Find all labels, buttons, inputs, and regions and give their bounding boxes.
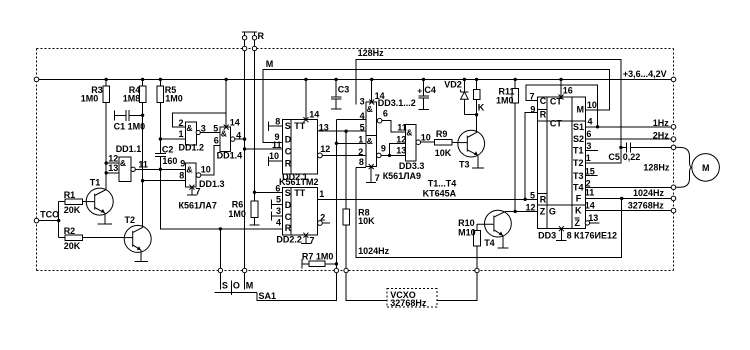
wire +V supply bus — [37, 78, 672, 80]
terminal vertical A bottom — [334, 268, 338, 272]
transistor T3 — [458, 130, 485, 169]
resistor R10 M10 — [458, 218, 480, 268]
wire SA1 S contact — [219, 229, 221, 269]
wire DD3.3 pin12 tie — [388, 144, 406, 157]
svg-text:10K: 10K — [358, 216, 375, 226]
node C3 bus junction — [334, 78, 337, 81]
svg-text:S: S — [285, 121, 291, 131]
svg-text:R10: R10 — [458, 218, 475, 228]
resistor R7 1M0 — [302, 252, 337, 269]
terminal R10 bottom — [475, 268, 479, 272]
wire DD1.2 pin1 — [160, 138, 185, 140]
node pin12 junction — [105, 161, 108, 164]
wire DD3 pin12 Z line — [506, 210, 538, 212]
svg-text:VD2: VD2 — [444, 79, 462, 89]
svg-text:2: 2 — [358, 147, 363, 157]
svg-text:3: 3 — [201, 123, 206, 133]
wire DD3 pin7 C route — [526, 85, 598, 127]
svg-text:1: 1 — [358, 135, 363, 145]
svg-text:T3: T3 — [459, 159, 470, 169]
pin DD2.1 9 wire from M — [275, 132, 280, 142]
svg-text:&: & — [120, 158, 126, 168]
svg-text:5: 5 — [276, 194, 281, 204]
svg-text:9: 9 — [381, 144, 386, 154]
resistor R2 20K — [59, 226, 125, 251]
node R terminal link — [242, 31, 265, 41]
wire VCXO output — [437, 273, 477, 301]
ground DD1.3 pin7 — [187, 185, 201, 197]
svg-text:1Hz: 1Hz — [653, 118, 670, 128]
labels DD3 internals — [540, 96, 584, 228]
svg-text:1024Hz: 1024Hz — [633, 188, 665, 198]
svg-text:+3,6...4,2V: +3,6...4,2V — [623, 69, 667, 79]
svg-text:DD3.3: DD3.3 — [399, 161, 425, 171]
svg-text:10: 10 — [421, 132, 431, 142]
terminal vertical B bottom — [344, 268, 348, 272]
svg-text:R: R — [540, 110, 547, 120]
terminal TCO — [34, 209, 59, 223]
wire M line — [263, 69, 610, 142]
svg-text:160: 160 — [162, 156, 177, 166]
flip-flop DD2.1 K561TM2 — [279, 120, 319, 188]
svg-text:12: 12 — [108, 153, 118, 163]
pin DD2.2 5 stub — [271, 194, 282, 209]
pin DD3 6 S2 2Hz — [585, 129, 676, 142]
svg-text:14: 14 — [585, 201, 595, 211]
resistor R4 1M8 — [123, 79, 146, 103]
svg-text:13: 13 — [396, 146, 406, 156]
wire vertical A DD1.4out net — [335, 119, 337, 268]
wire to DD2.1 C input — [245, 148, 283, 150]
svg-text:K: K — [478, 103, 485, 113]
node DD2.2 pin6 R6 junction — [253, 191, 256, 194]
capacitor C5 0,22 — [608, 142, 675, 162]
svg-text:1: 1 — [179, 129, 184, 139]
transistor T2 — [124, 215, 151, 261]
svg-text:8: 8 — [179, 170, 184, 180]
svg-text:T1: T1 — [573, 146, 584, 156]
pin DD3 13 Z stub — [585, 213, 599, 225]
svg-text:T2: T2 — [125, 215, 136, 225]
wire R5 down to C2 — [159, 103, 161, 154]
node resistor bus junction — [475, 78, 478, 81]
pin labels DD3.2 — [358, 135, 386, 167]
svg-text:10: 10 — [201, 165, 211, 175]
wire DD1.3 out to DD1.4 pin6 — [201, 145, 220, 175]
wire DD3 pin9 R route — [525, 113, 537, 200]
capacitor C2 160 — [155, 144, 177, 169]
svg-text:+: + — [417, 86, 422, 96]
wire DD1.1 output to DD1.3 pin9 — [135, 168, 185, 170]
oscillator VCXO box — [387, 289, 437, 308]
svg-text:128Hz: 128Hz — [358, 48, 385, 58]
wire R4 to T2 collector — [142, 103, 144, 228]
svg-text:M: M — [702, 163, 710, 173]
svg-text:M: M — [246, 281, 254, 291]
gate DD3.3 — [396, 123, 430, 172]
resistor R9 10K — [435, 129, 458, 158]
svg-text:13: 13 — [319, 122, 329, 132]
svg-text:20K: 20K — [64, 241, 81, 251]
svg-text:1: 1 — [586, 153, 591, 163]
wire R1 R2 split — [58, 202, 60, 238]
node R7 junction — [335, 262, 338, 265]
node pin16 bus junction — [559, 78, 562, 81]
svg-text:3: 3 — [586, 141, 591, 151]
svg-text:R: R — [285, 159, 292, 169]
terminals R top border — [242, 46, 256, 50]
svg-text:11: 11 — [138, 160, 148, 170]
node bus junctions — [105, 78, 308, 81]
node VD2 bus junction — [463, 78, 466, 81]
resistor R5 1M0 — [157, 79, 183, 103]
svg-text:13: 13 — [588, 213, 598, 223]
svg-text:16: 16 — [563, 85, 573, 95]
svg-text:SA1: SA1 — [259, 291, 277, 301]
svg-text:4: 4 — [276, 217, 281, 227]
wire DD1.1 pin12 — [106, 162, 119, 164]
svg-text:R9: R9 — [436, 129, 448, 139]
wire R terminal line 2 — [254, 40, 256, 192]
svg-text:2: 2 — [320, 213, 325, 223]
svg-text:10: 10 — [269, 151, 279, 161]
svg-text:&: & — [186, 164, 192, 174]
wire DD3.2 pin8 from 1024Hz feedback — [356, 166, 366, 168]
svg-text:T2: T2 — [573, 158, 584, 168]
svg-text:7: 7 — [196, 187, 201, 197]
svg-text:3: 3 — [276, 206, 281, 216]
svg-text:&: & — [367, 104, 373, 114]
svg-text:4: 4 — [588, 117, 593, 127]
ground DD2.2 pin7 — [301, 233, 315, 246]
node collector junction — [475, 113, 478, 116]
capacitor C1 1M0 — [114, 110, 146, 132]
label T1...T4 KT645A — [423, 179, 457, 199]
node C4 bus junction — [422, 78, 425, 81]
svg-text:KT645A: KT645A — [423, 188, 457, 198]
svg-text:14: 14 — [375, 91, 385, 101]
wire R3 to T1 collector — [105, 103, 107, 190]
svg-text:5: 5 — [530, 191, 535, 201]
svg-text:5: 5 — [360, 123, 365, 133]
wire DD3.2 pin1 — [336, 142, 365, 144]
svg-text:1M0: 1M0 — [228, 209, 246, 219]
svg-text:T1: T1 — [90, 178, 101, 188]
svg-text:T4: T4 — [484, 238, 495, 248]
pin DD3 gates 14 power — [369, 79, 384, 104]
svg-text:TT: TT — [294, 188, 305, 198]
svg-text:К561ЛА9: К561ЛА9 — [383, 171, 421, 181]
counter DD3 K176IE12 box — [538, 97, 586, 229]
wire DD1.4 output — [235, 138, 245, 140]
svg-text:TCO: TCO — [40, 209, 59, 219]
svg-text:&: & — [221, 129, 227, 139]
resistor R8 10K — [343, 208, 375, 269]
svg-text:К176ИЕ12: К176ИЕ12 — [574, 230, 617, 240]
pin DD2.1 13 output — [317, 122, 365, 132]
wire DD1.1 pin13 — [106, 172, 119, 174]
node DD3.2 pin8 crossover riser — [356, 167, 622, 257]
svg-text:F: F — [576, 194, 582, 204]
gate DD1.2 — [179, 118, 206, 153]
svg-text:CT: CT — [550, 118, 562, 128]
pin DD3 14 K 32768Hz — [585, 200, 676, 213]
svg-text:K: K — [575, 206, 582, 216]
pin DD2.1 10 stub — [269, 151, 283, 166]
svg-text:8: 8 — [567, 230, 572, 240]
svg-text:32768Hz: 32768Hz — [628, 200, 665, 210]
svg-text:8: 8 — [359, 157, 364, 167]
ground DD3 gates pin7 — [366, 164, 380, 183]
svg-text:&: & — [186, 123, 192, 133]
transistor T1 — [86, 178, 113, 224]
svg-text:R1: R1 — [64, 190, 76, 200]
svg-text:C2: C2 — [162, 144, 174, 154]
svg-text:R7 1M0: R7 1M0 — [302, 252, 334, 262]
pin DD2.2 3 stub — [271, 206, 282, 221]
svg-text:12: 12 — [320, 144, 330, 154]
resistor R3 1M0 — [81, 79, 110, 103]
output DD3.1 pin6 — [377, 118, 405, 131]
svg-text:&: & — [367, 136, 373, 146]
svg-text:6: 6 — [383, 109, 388, 119]
wire T2 collector to DD1.3 pin8 — [143, 180, 186, 182]
node pin8 junction — [141, 179, 144, 182]
flip-flop DD2.2 — [276, 188, 317, 245]
svg-text:S: S — [222, 281, 228, 291]
svg-text:C1 1M0: C1 1M0 — [114, 122, 146, 132]
svg-text:9: 9 — [180, 158, 185, 168]
svg-text:R2: R2 — [64, 226, 76, 236]
svg-text:7: 7 — [375, 173, 380, 183]
node pin5 R junction — [524, 198, 527, 201]
wire DD1.2 out to DD1.4 pin5 — [200, 132, 220, 134]
svg-text:14: 14 — [230, 117, 240, 127]
svg-text:R: R — [258, 31, 265, 41]
svg-text:R: R — [285, 223, 292, 233]
svg-text:10: 10 — [587, 100, 597, 110]
wire R terminal line 1 — [244, 40, 246, 268]
svg-text:C4: C4 — [424, 85, 436, 95]
wire C2 node to DD2.2 R input — [160, 169, 282, 229]
pin DD2.2 6 — [255, 184, 283, 194]
wire DD3.1 pin4 — [336, 118, 365, 120]
labels DD3 left pin numbers — [526, 92, 536, 213]
svg-text:R: R — [540, 194, 547, 204]
pin DD3 4 S1 1Hz — [585, 117, 676, 129]
node R11 bus junction — [514, 78, 517, 81]
svg-text:DD1.2: DD1.2 — [179, 143, 205, 153]
output DD3.3 pin10 with R9 — [416, 140, 435, 145]
svg-text:DD2.2: DD2.2 — [276, 235, 302, 245]
svg-text:C3: C3 — [338, 85, 350, 95]
svg-text:C: C — [285, 212, 292, 222]
node vertical B junction — [344, 130, 347, 133]
pin DD3 3 T1 stub — [585, 141, 598, 151]
svg-text:1M0: 1M0 — [81, 94, 99, 104]
svg-text:S1: S1 — [573, 122, 584, 132]
resistor R1 20K — [59, 190, 87, 215]
svg-text:M10: M10 — [458, 228, 476, 238]
svg-text:DD3: DD3 — [538, 230, 556, 240]
svg-text:C: C — [540, 96, 547, 106]
svg-text:S2: S2 — [573, 134, 584, 144]
wire vertical B VCXO control net — [345, 131, 347, 209]
svg-text:11: 11 — [397, 123, 407, 133]
terminal supply — [671, 77, 676, 82]
svg-text:9: 9 — [530, 104, 535, 114]
node pin1 junction — [335, 142, 338, 145]
resistor K collector load — [473, 79, 485, 114]
transistor T4 — [477, 210, 511, 248]
wire T3 collector — [476, 115, 478, 133]
svg-text:M: M — [577, 105, 585, 115]
diode VD2 — [444, 79, 476, 114]
svg-text:7: 7 — [310, 236, 315, 246]
svg-text:T4: T4 — [573, 182, 584, 192]
pin DD3 11 F 1024Hz — [585, 188, 676, 201]
svg-text:M: M — [266, 59, 274, 69]
svg-text:CT: CT — [550, 97, 562, 107]
node DD1.2 pin1 junction — [159, 137, 162, 140]
svg-text:Z: Z — [540, 207, 546, 217]
svg-text:5: 5 — [213, 123, 218, 133]
node pin13 junction — [105, 171, 108, 174]
svg-text:6: 6 — [586, 129, 591, 139]
resistor R6 1M0 — [228, 192, 259, 225]
svg-text:1: 1 — [319, 189, 324, 199]
pin DD3 15 T3 stub — [585, 167, 598, 177]
svg-text:1M0: 1M0 — [165, 94, 183, 104]
svg-text:2Hz: 2Hz — [653, 130, 670, 140]
svg-text:12: 12 — [396, 134, 406, 144]
capacitor C3 — [331, 79, 350, 109]
svg-text:Z: Z — [575, 218, 581, 228]
svg-text:3: 3 — [360, 96, 365, 106]
svg-text:11: 11 — [272, 140, 282, 150]
gate DD1.1 — [108, 144, 148, 181]
gate DD1.4 — [213, 117, 242, 160]
wire DD3 pin16 power — [560, 79, 562, 97]
svg-text:T3: T3 — [573, 171, 584, 181]
wire 128Hz top line — [356, 60, 621, 163]
svg-text:T1...T4: T1...T4 — [428, 179, 457, 189]
svg-text:13: 13 — [108, 163, 118, 173]
svg-text:1M0: 1M0 — [496, 95, 514, 105]
terminal bus left — [34, 77, 39, 82]
svg-text:G: G — [549, 207, 556, 217]
node SA1-S tap — [219, 227, 222, 230]
pin DD2.2 2 output stub — [318, 213, 331, 226]
svg-text:14: 14 — [309, 109, 319, 119]
pin labels DD3.1 — [360, 96, 388, 132]
svg-text:0,22: 0,22 — [623, 152, 641, 162]
power marker pin16 — [559, 85, 573, 99]
svg-text:6: 6 — [214, 135, 219, 145]
wire bus to DD1.4 pin14 — [225, 79, 227, 127]
node DD1.4 out junction — [243, 137, 246, 140]
svg-text:128Hz: 128Hz — [643, 163, 670, 173]
pin DD2.2 1 output — [317, 189, 537, 199]
node C1-R4 junction — [141, 114, 144, 117]
switch SA1 — [215, 268, 337, 301]
ground DD3 pin8 — [556, 226, 571, 240]
svg-text:O: O — [233, 281, 240, 291]
wire VCXO input — [346, 273, 387, 301]
svg-text:К561ЛА7: К561ЛА7 — [179, 201, 217, 211]
svg-text:8: 8 — [275, 116, 280, 126]
node C2 output junction — [159, 168, 162, 171]
pin DD3 2 T4 motor line — [585, 179, 676, 190]
wire DD1.2 pin2 from bus — [173, 113, 227, 127]
gates DD3.1 DD3.2 — [366, 98, 416, 167]
svg-text:4: 4 — [360, 111, 365, 121]
node pin12 Z junction — [514, 210, 517, 213]
svg-text:1M8: 1M8 — [123, 94, 141, 104]
svg-text:11: 11 — [585, 188, 595, 198]
svg-text:DD1.1: DD1.1 — [116, 144, 142, 154]
svg-text:32768Hz: 32768Hz — [390, 298, 427, 308]
svg-text:10K: 10K — [435, 148, 452, 158]
node C input junction — [243, 147, 246, 150]
svg-text:DD1.3: DD1.3 — [199, 179, 225, 189]
svg-text:&: & — [406, 127, 412, 137]
pin DD2.1 8 stub — [269, 116, 283, 130]
resistor R11 1M0 — [496, 79, 519, 211]
pin DD2.1 12 output — [318, 144, 366, 158]
pin DD2.1 14 power — [303, 79, 319, 122]
svg-text:6: 6 — [275, 184, 280, 194]
enclosure dashed border — [37, 49, 674, 271]
svg-text:D: D — [285, 134, 292, 144]
svg-text:D: D — [285, 200, 292, 210]
capacitor C4 — [417, 79, 436, 109]
svg-text:12: 12 — [526, 203, 536, 213]
svg-text:7: 7 — [530, 92, 535, 102]
svg-text:1024Hz: 1024Hz — [358, 246, 390, 256]
output DD3.2 pin9 — [377, 153, 406, 158]
motor M with brace — [676, 147, 720, 187]
svg-text:DD1.4: DD1.4 — [217, 150, 243, 160]
node TCO junction — [57, 219, 60, 222]
gate DD1.3 — [179, 158, 224, 188]
svg-text:TT: TT — [294, 121, 305, 131]
svg-text:K561TM2: K561TM2 — [279, 177, 319, 187]
svg-text:C: C — [285, 147, 292, 157]
node DD3gates pin14 bus junction — [370, 78, 373, 81]
svg-text:S: S — [285, 188, 291, 198]
svg-text:20K: 20K — [64, 205, 81, 215]
svg-text:C5: C5 — [608, 152, 620, 162]
